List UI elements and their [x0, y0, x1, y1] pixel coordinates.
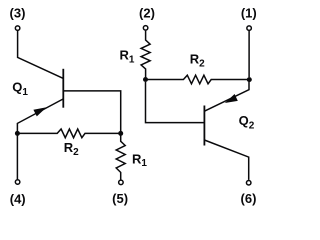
transistor Q1 base bar	[62, 69, 64, 108]
svg-text:(4): (4)	[10, 191, 26, 206]
terminal 2	[143, 26, 148, 31]
node D junction dot	[247, 77, 252, 82]
resistor R1 (right, vertical)	[141, 31, 150, 78]
wire node A to terminal 4	[16, 133, 18, 179]
wire terminal 1 to node D	[248, 31, 250, 77]
Q1 emitter arrow	[33, 107, 46, 116]
wire node C to Q2 base	[146, 82, 205, 123]
terminal 1	[247, 26, 252, 31]
Q2 emitter arrow	[225, 94, 238, 103]
resistor R2 (left)	[17, 129, 120, 138]
transistor Q2 base bar	[203, 106, 205, 146]
wire Q1 base to node B	[63, 91, 120, 131]
node B junction dot	[118, 131, 123, 136]
svg-text:(1): (1)	[241, 5, 257, 20]
svg-text:(3): (3)	[10, 5, 26, 20]
terminal 4	[15, 180, 20, 185]
resistor R1 (left, vertical)	[116, 133, 125, 179]
transistor Q1 emitter with arrow	[17, 99, 63, 132]
resistor R2 (right)	[146, 75, 250, 84]
terminal 6	[246, 180, 251, 185]
svg-text:(2): (2)	[139, 6, 155, 21]
node A junction dot	[15, 131, 20, 136]
wire terminal 3 to Q1 collector	[18, 31, 64, 79]
node C junction dot	[143, 77, 148, 82]
terminal 5	[119, 180, 124, 185]
svg-text:(6): (6)	[241, 191, 257, 206]
transistor Q2 collector	[204, 140, 248, 180]
transistor Q2 emitter with arrow	[204, 82, 249, 111]
terminal 3	[15, 26, 20, 31]
svg-text:(5): (5)	[112, 191, 128, 206]
